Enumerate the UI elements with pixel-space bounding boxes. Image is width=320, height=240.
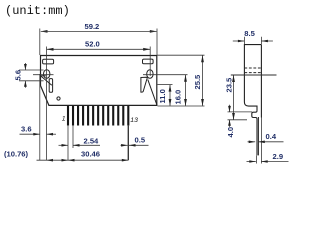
svg-text:1: 1 <box>62 116 66 123</box>
svg-text:11.0: 11.0 <box>158 89 167 103</box>
svg-text:30.46: 30.46 <box>81 150 100 159</box>
svg-text:0.5: 0.5 <box>135 136 146 145</box>
svg-text:52.0: 52.0 <box>85 40 100 49</box>
svg-text:8.5: 8.5 <box>244 29 255 38</box>
svg-text:23.5: 23.5 <box>224 77 233 93</box>
svg-text:(unit:mm): (unit:mm) <box>5 4 70 18</box>
svg-text:0.4: 0.4 <box>266 132 277 141</box>
svg-text:(10.76): (10.76) <box>4 150 29 159</box>
svg-text:13: 13 <box>130 117 138 124</box>
svg-text:16.0: 16.0 <box>174 90 183 105</box>
svg-text:59.2: 59.2 <box>85 22 100 31</box>
svg-text:25.5: 25.5 <box>193 74 202 90</box>
svg-text:4.0: 4.0 <box>226 127 235 138</box>
svg-text:2.9: 2.9 <box>273 152 284 161</box>
svg-text:3.6: 3.6 <box>21 124 32 133</box>
svg-text:2.54: 2.54 <box>84 136 100 145</box>
svg-text:5.6: 5.6 <box>14 70 23 81</box>
